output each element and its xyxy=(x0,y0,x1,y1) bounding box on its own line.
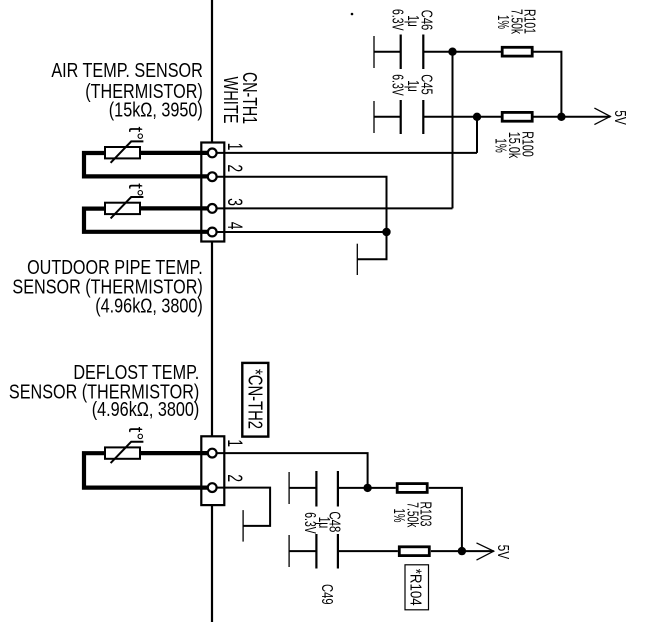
svg-text:C49: C49 xyxy=(318,584,335,605)
svg-text:1: 1 xyxy=(223,439,246,447)
svg-text:t°: t° xyxy=(124,127,146,141)
svg-text:3: 3 xyxy=(223,198,246,206)
svg-text:1%: 1% xyxy=(494,15,511,29)
svg-text:4: 4 xyxy=(223,222,246,230)
svg-text:5V: 5V xyxy=(611,110,628,125)
svg-text:(4.96kΩ, 3800): (4.96kΩ, 3800) xyxy=(92,399,200,421)
svg-text:1μ: 1μ xyxy=(404,80,421,92)
svg-text:6.3V: 6.3V xyxy=(388,74,405,96)
svg-text:WHITE: WHITE xyxy=(219,77,241,124)
svg-text:AIR TEMP. SENSOR: AIR TEMP. SENSOR xyxy=(51,60,202,82)
svg-text:1μ: 1μ xyxy=(404,15,421,27)
svg-text:1%: 1% xyxy=(390,509,407,523)
svg-text:1: 1 xyxy=(223,143,246,151)
svg-text:*R104: *R104 xyxy=(407,569,424,606)
svg-text:t°: t° xyxy=(124,427,146,441)
svg-text:5V: 5V xyxy=(494,545,511,560)
svg-text:(4.96kΩ, 3800): (4.96kΩ, 3800) xyxy=(95,295,203,317)
svg-text:6.3V: 6.3V xyxy=(388,9,405,31)
svg-text:2: 2 xyxy=(223,474,246,482)
svg-text:6.3V: 6.3V xyxy=(301,512,318,534)
svg-text:2: 2 xyxy=(223,164,246,172)
svg-text:*CN-TH2: *CN-TH2 xyxy=(243,369,265,429)
svg-text:t°: t° xyxy=(124,183,146,197)
svg-text:(15kΩ, 3950): (15kΩ, 3950) xyxy=(109,99,203,121)
svg-text:1%: 1% xyxy=(492,138,509,153)
